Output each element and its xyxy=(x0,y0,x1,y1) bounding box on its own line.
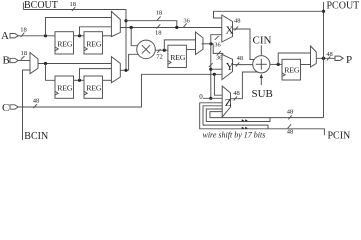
svg-text:B: B xyxy=(3,55,10,67)
wire M to X mux riser xyxy=(211,35,222,44)
node adder out xyxy=(277,63,280,66)
node multiplier out xyxy=(163,49,166,52)
node P top junction xyxy=(322,10,325,13)
wire P feedback to X mux xyxy=(214,11,324,18)
wire REG A1 to REG A2 xyxy=(74,35,85,37)
wire REG P out xyxy=(301,64,311,66)
node BCOUT xyxy=(23,0,58,11)
svg-text:REG: REG xyxy=(57,84,73,93)
wire P out xyxy=(316,57,335,59)
value label 18 on B branch xyxy=(156,9,163,20)
svg-text:PCIN: PCIN xyxy=(328,130,351,140)
wire B 1-reg tap riser xyxy=(80,69,112,81)
svg-text:18: 18 xyxy=(155,30,162,37)
slash on M to X riser xyxy=(215,36,219,40)
shift marks on P shifted wire xyxy=(242,119,248,122)
node concat junction xyxy=(175,26,178,29)
svg-text:0: 0 xyxy=(199,93,203,101)
value label 72 on product xyxy=(156,49,163,60)
wire mux A out to multiplier / concat xyxy=(120,27,222,29)
svg-text:REG: REG xyxy=(86,39,102,48)
shift marks on PCIN shifted wire xyxy=(242,127,248,130)
node B junction xyxy=(44,62,47,65)
svg-text:72: 72 xyxy=(156,53,163,60)
wire C input xyxy=(18,74,222,107)
input pad B xyxy=(3,55,19,67)
node A junction xyxy=(44,34,47,37)
value label 36 on concat xyxy=(183,18,190,28)
wire X mux out to adder xyxy=(233,29,255,60)
wire PCIN input xyxy=(200,103,325,136)
value label 48 on Z out xyxy=(233,90,240,100)
mux A pipeline select xyxy=(111,11,120,36)
svg-text:REG: REG xyxy=(57,39,73,48)
wire P shifted branch xyxy=(206,109,270,122)
wire C to Z mux drop xyxy=(214,74,222,95)
svg-text:A: A xyxy=(1,30,9,42)
value label 18 on B wire xyxy=(21,50,28,60)
value label 18 on A wire xyxy=(20,27,27,37)
svg-text:48: 48 xyxy=(287,128,294,135)
wire REG A2 out xyxy=(103,35,112,37)
svg-text:C: C xyxy=(2,102,9,114)
svg-text:48: 48 xyxy=(33,98,40,105)
value label 48 on Y out xyxy=(236,55,243,66)
wire REG B2 out xyxy=(103,79,112,81)
wire PCIN shifted branch xyxy=(203,106,268,129)
node zero to Y xyxy=(209,68,212,71)
wire P bypass riser xyxy=(278,53,310,64)
register REG P xyxy=(282,59,301,80)
output pad P xyxy=(335,54,352,66)
node B net top branch xyxy=(124,19,127,22)
svg-text:36: 36 xyxy=(214,41,221,48)
wire zero to Y mux xyxy=(211,68,222,70)
SUB control arrow xyxy=(260,74,263,85)
svg-text:REG: REG xyxy=(86,84,102,93)
svg-text:Y: Y xyxy=(226,61,234,73)
value label 36 on M to Y branch xyxy=(216,51,223,62)
wire A input xyxy=(18,35,55,37)
svg-text:BCIN: BCIN xyxy=(24,131,48,140)
node M net xyxy=(209,42,212,45)
mux B pipeline select xyxy=(111,57,120,83)
svg-text:48: 48 xyxy=(237,55,244,62)
register REG B1 xyxy=(55,76,74,98)
wire mux B2 out xyxy=(120,69,128,71)
wire A 1-reg tap riser xyxy=(80,27,112,36)
wire B input xyxy=(18,60,30,62)
svg-text:PCOUT: PCOUT xyxy=(327,0,360,11)
wire zero net vertical xyxy=(210,44,212,99)
value label 48 on C wire xyxy=(33,98,40,108)
svg-text:48: 48 xyxy=(233,90,240,97)
svg-text:REG: REG xyxy=(284,65,300,74)
wire REG M out xyxy=(186,49,195,51)
input pad C xyxy=(2,102,18,114)
mux M select xyxy=(196,32,204,55)
adder/subtracter xyxy=(253,56,270,73)
node zero to Z xyxy=(209,97,212,100)
value label 48 on PCIN xyxy=(287,124,294,135)
node P net junction xyxy=(322,57,325,60)
mux B input select xyxy=(30,53,38,74)
wire REG B1 to REG B2 xyxy=(74,79,85,81)
register REG M xyxy=(168,45,187,67)
value label 18 on BCOUT wire xyxy=(70,1,77,11)
node B 1-reg tap xyxy=(78,79,81,82)
svg-text:P: P xyxy=(346,54,352,66)
register REG B2 xyxy=(84,76,103,98)
value label 48 on P out xyxy=(326,51,333,61)
multiplier xyxy=(137,40,156,59)
mux X xyxy=(222,15,234,42)
wire CIN stub xyxy=(260,45,262,55)
node B net mux out xyxy=(124,69,127,72)
node A 1-reg tap xyxy=(78,34,81,37)
wire M bypass xyxy=(164,40,195,50)
svg-text:wire shift by 17 bits: wire shift by 17 bits xyxy=(203,130,266,139)
wire 0 stub into Z mux xyxy=(203,97,222,99)
wire B branch to concat xyxy=(126,21,177,28)
slash on zero net xyxy=(209,63,213,67)
input pad A xyxy=(1,30,18,42)
wire B to multiplier riser xyxy=(129,54,139,70)
svg-text:18: 18 xyxy=(156,9,163,16)
wire A to multiplier riser xyxy=(131,28,137,46)
svg-text:18: 18 xyxy=(21,50,28,57)
register REG A1 xyxy=(55,32,74,54)
wire PCOUT vertical xyxy=(323,2,325,118)
svg-text:REG: REG xyxy=(170,53,186,62)
wire A bypass riser xyxy=(46,18,112,36)
node A net to multiplier xyxy=(130,26,133,29)
wire BCOUT net (top left, 18) xyxy=(23,9,126,11)
value label 48 on X out xyxy=(234,18,241,31)
svg-text:X: X xyxy=(226,25,234,37)
mux P select xyxy=(311,46,317,67)
svg-text:18: 18 xyxy=(20,27,27,34)
wire B into REG B1 xyxy=(46,64,56,81)
wire M to Y mux branch xyxy=(213,44,223,56)
wire multiplier out xyxy=(155,49,168,51)
wire P feedback to Z nest xyxy=(210,112,324,118)
svg-text:36: 36 xyxy=(183,18,190,25)
wire Y mux out to adder xyxy=(233,64,253,66)
svg-text:48: 48 xyxy=(287,108,294,115)
wire mux B1 out bypass xyxy=(38,63,111,65)
svg-text:SUB: SUB xyxy=(252,88,273,100)
value label 48 on P feedback xyxy=(287,108,294,119)
wire BCIN input xyxy=(23,70,31,140)
svg-text:48: 48 xyxy=(234,18,241,25)
mux Z xyxy=(222,86,232,117)
wire B net riser to BCOUT xyxy=(125,10,127,71)
svg-text:CIN: CIN xyxy=(253,35,272,47)
wire Z mux out to adder xyxy=(231,72,259,99)
register REG A2 xyxy=(84,32,103,54)
node C to Y junction xyxy=(213,73,216,76)
wire adder out xyxy=(270,63,282,65)
mux Y xyxy=(222,54,234,79)
value label 18 on A branch xyxy=(155,24,162,36)
wire mux M out xyxy=(202,43,214,45)
